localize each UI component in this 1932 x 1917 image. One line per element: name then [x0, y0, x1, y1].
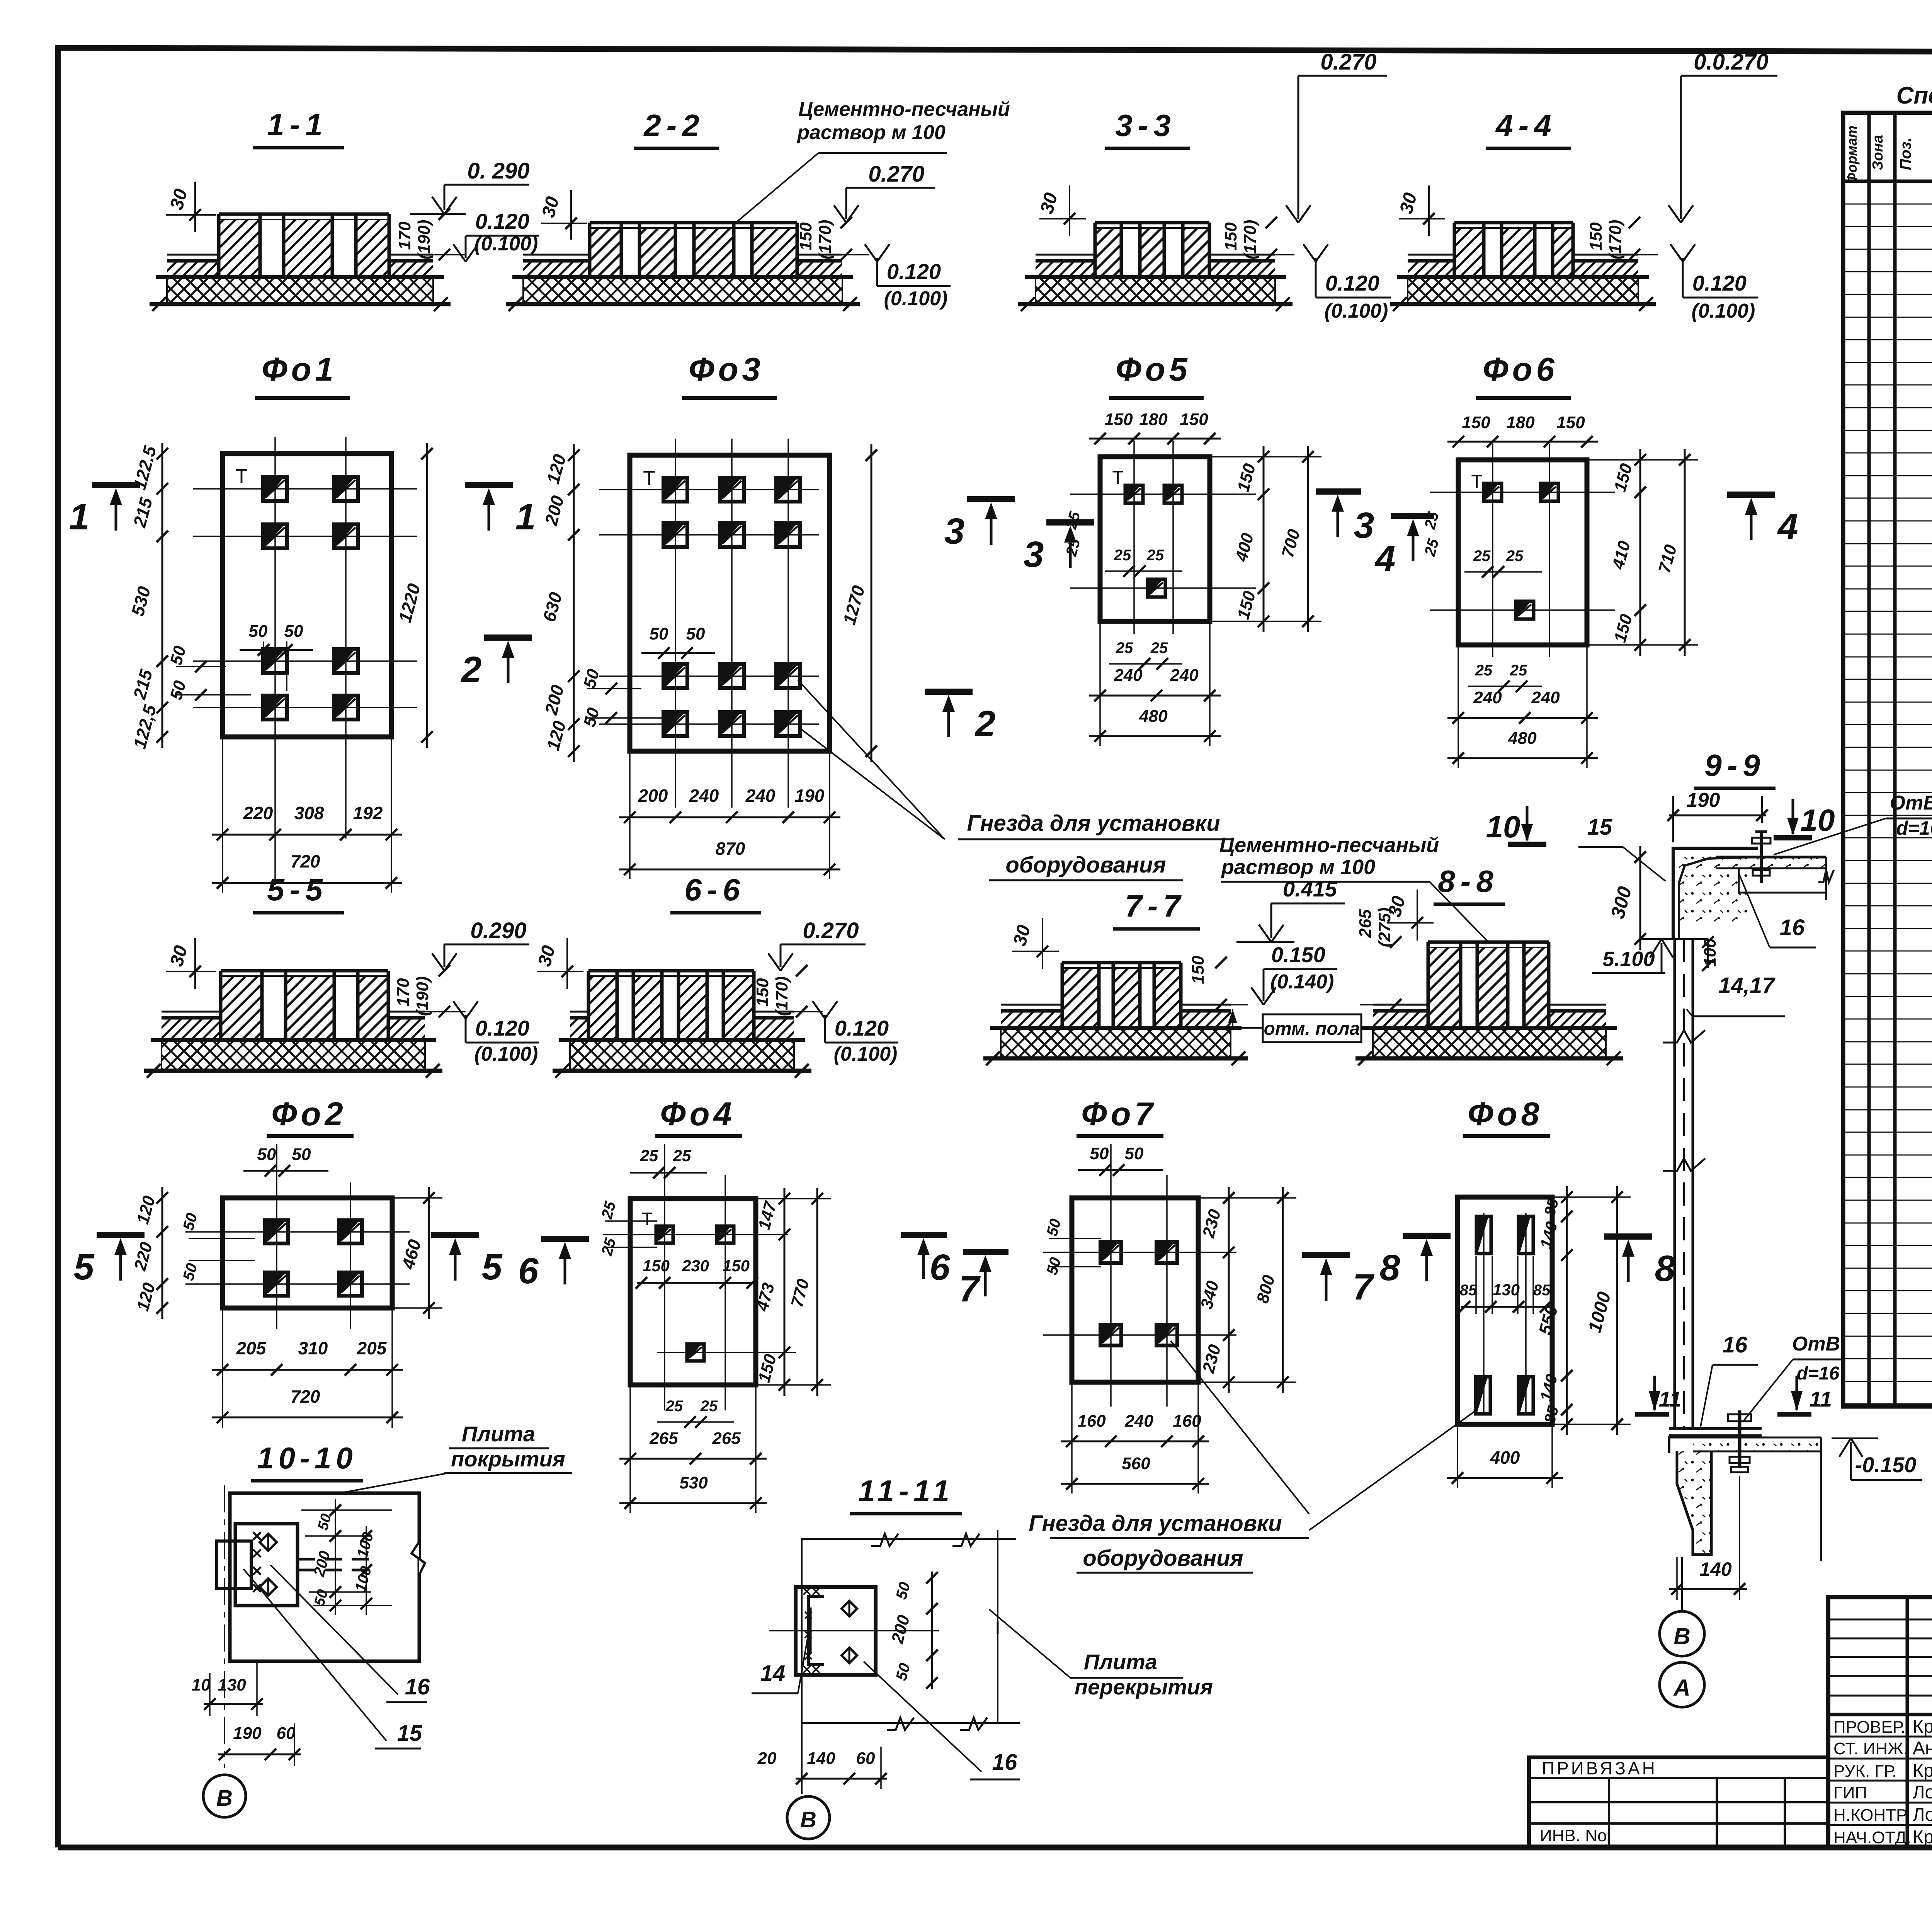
- svg-text:190: 190: [795, 786, 825, 806]
- svg-text:308: 308: [294, 803, 324, 823]
- svg-text:d=16: d=16: [1896, 817, 1932, 839]
- privyazan box: [1529, 1757, 1828, 1847]
- svg-text:8: 8: [1655, 1248, 1675, 1289]
- svg-text:140: 140: [807, 1749, 835, 1768]
- svg-text:205: 205: [357, 1338, 387, 1358]
- svg-text:16: 16: [405, 1674, 430, 1699]
- channel 11-11: [808, 1596, 824, 1665]
- axis circles B A 9-9: [1681, 1557, 1683, 1611]
- svg-text:50: 50: [284, 622, 303, 641]
- inner embed 10-10: [235, 1524, 298, 1606]
- svg-text:5: 5: [74, 1247, 95, 1288]
- weld x 11-11: [803, 1588, 810, 1595]
- svg-text:25: 25: [1475, 662, 1493, 679]
- bottom dims Fo5: [1089, 695, 1221, 697]
- dashed pair 10-10: [298, 1558, 379, 1561]
- leader gnezda Fo3: [798, 680, 945, 839]
- sockets Fo3: [663, 478, 687, 502]
- svg-text:0.120: 0.120: [475, 209, 529, 233]
- vertical ref line right 9-9: [1820, 1437, 1822, 1561]
- svg-text:4: 4: [1777, 506, 1798, 547]
- svg-text:720: 720: [291, 851, 320, 871]
- svg-text:192: 192: [353, 803, 383, 823]
- svg-text:Фо6: Фо6: [1483, 351, 1558, 388]
- svg-text:25: 25: [1506, 548, 1524, 565]
- svg-text:Цементно-песчаный: Цементно-песчаный: [1219, 833, 1439, 857]
- section mark 5 right: [431, 1232, 479, 1238]
- svg-text:10-10: 10-10: [257, 1441, 357, 1475]
- section mark 7 right: [1302, 1252, 1350, 1258]
- svg-text:покрытия: покрытия: [451, 1447, 565, 1471]
- axes 11-11: [801, 1538, 803, 1794]
- svg-text:d=16: d=16: [1797, 1363, 1840, 1384]
- svg-text:4: 4: [1374, 538, 1396, 579]
- svg-text:6: 6: [518, 1250, 539, 1291]
- svg-text:20: 20: [757, 1749, 777, 1768]
- svg-text:Гнезда для установки: Гнезда для установки: [967, 811, 1220, 836]
- leader gnezda Fo7 Fo8: [1171, 1341, 1309, 1514]
- label 16 11-11: [864, 1662, 981, 1772]
- section mark 7 left: [963, 1249, 1009, 1255]
- center lines Fo6: [1492, 444, 1493, 657]
- section mark 11 left: [1653, 1376, 1656, 1410]
- svg-text:50: 50: [1090, 1144, 1109, 1163]
- svg-text:0.290: 0.290: [470, 918, 526, 943]
- bottom slab 9-9: [1669, 1437, 1821, 1439]
- section mark 5 left: [97, 1232, 145, 1238]
- svg-text:10: 10: [1801, 803, 1835, 837]
- otm pola box 7-7: [1263, 1014, 1361, 1042]
- bottom dims Fo7: [1061, 1441, 1209, 1442]
- diamonds 11-11: [842, 1601, 857, 1616]
- svg-text:11: 11: [1659, 1387, 1681, 1411]
- svg-text:ИНВ. No: ИНВ. No: [1540, 1826, 1607, 1845]
- svg-text:150: 150: [796, 222, 815, 251]
- left dim chain Fo1: [162, 443, 163, 748]
- svg-text:Т: Т: [1471, 471, 1482, 492]
- svg-text:25: 25: [640, 1146, 658, 1165]
- svg-text:60: 60: [856, 1749, 875, 1768]
- svg-text:160: 160: [1173, 1412, 1201, 1431]
- section mark 11 right: [1796, 1376, 1798, 1410]
- svg-text:150: 150: [1104, 410, 1133, 429]
- svg-text:150: 150: [1587, 222, 1605, 251]
- svg-text:10: 10: [1486, 810, 1520, 844]
- svg-text:(0.100): (0.100): [1325, 300, 1388, 322]
- svg-text:А: А: [1673, 1675, 1690, 1701]
- sockets Fo4: [656, 1226, 673, 1243]
- svg-text:(0.100): (0.100): [834, 1043, 898, 1065]
- corbel 9-9: [1677, 1451, 1711, 1555]
- svg-text:480: 480: [1508, 729, 1537, 748]
- svg-text:15: 15: [1587, 815, 1612, 840]
- svg-text:130: 130: [1493, 1281, 1520, 1299]
- center lines Fo7: [1110, 1144, 1112, 1407]
- bracket 9-9 top: [1673, 848, 1758, 939]
- svg-text:РУК. ГР.: РУК. ГР.: [1833, 1762, 1897, 1781]
- section mark 6 right: [901, 1232, 947, 1238]
- svg-text:(170): (170): [1241, 220, 1260, 260]
- svg-text:5-5: 5-5: [267, 873, 328, 907]
- top dims 150 180 150 Fo5: [1089, 438, 1221, 440]
- svg-text:16: 16: [992, 1750, 1017, 1775]
- svg-text:Цементно-песчаный: Цементно-песчаный: [798, 98, 1010, 121]
- svg-text:-0.150: -0.150: [1855, 1453, 1917, 1477]
- svg-text:Краснова: Краснова: [1913, 1716, 1932, 1737]
- svg-text:25: 25: [700, 1398, 718, 1415]
- center lines Fo1: [274, 437, 276, 885]
- svg-text:8-8: 8-8: [1438, 864, 1499, 898]
- sockets Fo7: [1100, 1242, 1121, 1263]
- bottom dims Fo4: [619, 1458, 767, 1460]
- bolt bottom 9-9: [1738, 1410, 1742, 1468]
- leaders 16 15 10-10: [270, 1565, 398, 1694]
- svg-text:240: 240: [1473, 688, 1502, 707]
- svg-text:25: 25: [1146, 547, 1164, 564]
- svg-text:ПРИВЯЗАН: ПРИВЯЗАН: [1542, 1758, 1657, 1778]
- svg-text:1-1: 1-1: [267, 107, 328, 142]
- svg-text:Т: Т: [1112, 468, 1123, 488]
- svg-text:0.270: 0.270: [803, 918, 859, 943]
- right dim 1220 Fo1: [426, 443, 428, 748]
- svg-text:16: 16: [1780, 915, 1805, 940]
- bottom dim 400 Fo8: [1447, 1477, 1563, 1479]
- slab right 9-9: [1716, 856, 1826, 859]
- svg-text:В: В: [800, 1807, 816, 1832]
- svg-text:16: 16: [1723, 1332, 1748, 1357]
- center lines Fo4: [664, 1144, 665, 1410]
- svg-text:Плита: Плита: [1084, 1650, 1157, 1674]
- svg-text:6: 6: [930, 1247, 951, 1288]
- svg-text:8: 8: [1380, 1247, 1400, 1288]
- svg-text:0.270: 0.270: [868, 162, 924, 187]
- dims right 10-10: [301, 1509, 392, 1511]
- svg-text:7: 7: [959, 1269, 981, 1310]
- svg-text:14,17: 14,17: [1718, 973, 1776, 998]
- svg-text:(0.100): (0.100): [474, 1043, 538, 1065]
- svg-text:9-9: 9-9: [1704, 748, 1765, 782]
- svg-text:170: 170: [394, 978, 413, 1007]
- svg-text:0.120: 0.120: [1325, 271, 1379, 295]
- section mark 3 right Fo5: [1316, 488, 1361, 495]
- svg-text:В: В: [216, 1786, 233, 1811]
- svg-text:150: 150: [1221, 222, 1240, 251]
- svg-text:(170): (170): [772, 976, 791, 1016]
- svg-text:5.100: 5.100: [1602, 947, 1655, 971]
- svg-text:180: 180: [1139, 410, 1168, 429]
- svg-text:отм. пола: отм. пола: [1264, 1019, 1360, 1039]
- svg-text:(275): (275): [1375, 908, 1394, 947]
- svg-text:0.120: 0.120: [887, 259, 941, 284]
- svg-text:240: 240: [1124, 1412, 1153, 1431]
- channel left 10-10: [217, 1541, 251, 1589]
- wall below 9-9: [1673, 939, 1676, 1429]
- weld x marks 10-10: [253, 1532, 261, 1540]
- svg-text:560: 560: [1122, 1454, 1150, 1473]
- svg-text:85: 85: [1460, 1282, 1477, 1299]
- svg-text:0.120: 0.120: [835, 1016, 889, 1040]
- svg-text:0.150: 0.150: [1271, 942, 1325, 967]
- spec table grid: [1843, 113, 1932, 1407]
- svg-text:Красавин: Красавин: [1913, 1827, 1932, 1847]
- svg-text:220: 220: [243, 803, 273, 823]
- svg-text:оборудования: оборудования: [1005, 852, 1166, 878]
- center lines Fo3: [675, 439, 676, 808]
- svg-text:Н.КОНТР: Н.КОНТР: [1833, 1806, 1907, 1825]
- svg-text:Т: Т: [642, 1209, 653, 1229]
- svg-text:Фо1: Фо1: [262, 351, 337, 388]
- section mark 10 right: [1792, 799, 1794, 834]
- svg-text:ГИП: ГИП: [1833, 1783, 1867, 1802]
- sockets Fo5: [1125, 485, 1143, 503]
- section mark 1 left: [92, 482, 140, 488]
- svg-text:3-3: 3-3: [1115, 108, 1176, 143]
- section mark 3 left Fo5: [1046, 519, 1094, 526]
- svg-text:Краснова: Краснова: [1913, 1761, 1932, 1781]
- svg-text:НАЧ.ОТД.: НАЧ.ОТД.: [1833, 1828, 1911, 1847]
- section mark 1 right: [465, 482, 513, 488]
- axis circle B 10-10: [203, 1775, 246, 1817]
- section mark 3 top right: [967, 496, 1015, 502]
- svg-text:25: 25: [665, 1398, 683, 1415]
- svg-text:2-2: 2-2: [643, 108, 705, 143]
- svg-text:50: 50: [686, 624, 705, 643]
- left dim chain Fo3: [573, 444, 575, 762]
- svg-text:(190): (190): [415, 220, 434, 260]
- svg-text:150: 150: [723, 1257, 750, 1275]
- bottom dims Fo2: [212, 1369, 403, 1371]
- signature rows: [1828, 1736, 1932, 1738]
- right chain Fo5: [1263, 446, 1265, 632]
- svg-text:240: 240: [1170, 666, 1199, 685]
- svg-text:150: 150: [1189, 956, 1207, 984]
- svg-text:0. 290: 0. 290: [467, 158, 529, 184]
- svg-text:310: 310: [298, 1338, 328, 1358]
- svg-text:400: 400: [1490, 1448, 1520, 1468]
- right dim 1270 Fo3: [871, 444, 872, 762]
- svg-text:50: 50: [650, 624, 668, 643]
- svg-text:7-7: 7-7: [1125, 889, 1186, 923]
- svg-text:10: 10: [192, 1675, 211, 1694]
- svg-text:Т: Т: [235, 465, 248, 488]
- svg-text:7: 7: [1353, 1267, 1375, 1308]
- svg-text:(0.140): (0.140): [1270, 971, 1334, 993]
- svg-text:14: 14: [760, 1661, 786, 1686]
- svg-text:0.0.270: 0.0.270: [1694, 49, 1769, 75]
- top dims 150 180 150 Fo6: [1447, 441, 1598, 443]
- svg-text:Спецификация фундаментов под: Спецификация фундаментов под оборудовани…: [1896, 82, 1932, 109]
- svg-text:25: 25: [1473, 548, 1491, 565]
- sockets Fo2: [265, 1220, 288, 1243]
- svg-text:5: 5: [482, 1247, 503, 1288]
- svg-text:1: 1: [515, 497, 536, 538]
- section mark 10 left: [1526, 806, 1529, 840]
- svg-text:190: 190: [1687, 789, 1720, 811]
- svg-text:50: 50: [1125, 1144, 1144, 1163]
- svg-text:230: 230: [682, 1257, 709, 1275]
- dashdot axis 10-10: [224, 1485, 225, 1768]
- svg-text:1: 1: [69, 497, 90, 538]
- svg-text:50: 50: [292, 1145, 311, 1164]
- anchor bolt top 9-9: [1760, 832, 1763, 883]
- svg-text:3: 3: [1024, 534, 1044, 575]
- svg-text:205: 205: [236, 1338, 267, 1358]
- svg-text:265: 265: [712, 1429, 741, 1448]
- svg-text:870: 870: [716, 839, 745, 859]
- section mark 4 left Fo6: [1391, 513, 1434, 519]
- svg-text:Гнезда для установки: Гнезда для установки: [1029, 1511, 1282, 1536]
- svg-text:Формат: Формат: [1844, 126, 1860, 184]
- title block outer: [1828, 1597, 1932, 1847]
- svg-text:ПРОВЕР.: ПРОВЕР.: [1833, 1718, 1905, 1737]
- svg-text:15: 15: [397, 1721, 422, 1746]
- svg-text:11: 11: [1810, 1387, 1832, 1411]
- bottom dims Fo1: [212, 834, 402, 836]
- svg-text:25: 25: [673, 1146, 691, 1165]
- svg-text:150: 150: [1556, 413, 1585, 432]
- svg-text:85: 85: [1533, 1282, 1551, 1299]
- svg-text:Ананьева: Ананьева: [1913, 1738, 1932, 1759]
- svg-text:2: 2: [975, 703, 996, 744]
- dim 300 9-9: [1639, 846, 1641, 950]
- section mark 2 right: [925, 689, 973, 695]
- svg-text:Фо4: Фо4: [660, 1096, 736, 1133]
- sockets Fo1: [263, 477, 287, 501]
- svg-text:3: 3: [1354, 505, 1374, 546]
- svg-text:11-11: 11-11: [858, 1474, 954, 1508]
- svg-text:240: 240: [745, 786, 776, 806]
- right chain Fo7: [1228, 1187, 1230, 1393]
- svg-text:240: 240: [1531, 688, 1560, 707]
- svg-text:180: 180: [1506, 413, 1535, 432]
- bottom plate 9-9: [1669, 1427, 1762, 1430]
- svg-text:В: В: [1673, 1623, 1690, 1649]
- svg-text:140: 140: [1699, 1558, 1732, 1580]
- svg-text:150: 150: [1180, 410, 1208, 429]
- section mark 8 right: [1604, 1233, 1652, 1240]
- svg-text:(190): (190): [413, 976, 432, 1016]
- svg-text:Фо2: Фо2: [271, 1096, 347, 1133]
- svg-text:раствор м 100: раствор м 100: [1221, 856, 1375, 879]
- svg-text:25: 25: [1114, 547, 1131, 564]
- svg-text:Плита: Плита: [462, 1422, 535, 1446]
- svg-text:150: 150: [643, 1257, 670, 1275]
- svg-text:6-6: 6-6: [684, 873, 745, 907]
- right chains Fo8: [1566, 1186, 1568, 1435]
- right chain Fo4: [784, 1188, 786, 1396]
- svg-text:Т: Т: [643, 467, 655, 490]
- axis circle B 11-11: [787, 1796, 830, 1839]
- svg-text:СТ. ИНЖ.: СТ. ИНЖ.: [1833, 1739, 1908, 1758]
- svg-text:50: 50: [249, 622, 268, 641]
- dim 140 bottom 9-9: [1669, 1588, 1747, 1590]
- svg-text:240: 240: [689, 786, 719, 806]
- svg-text:(0.100): (0.100): [1692, 300, 1755, 322]
- svg-text:240: 240: [1114, 666, 1143, 685]
- svg-text:оборудования: оборудования: [1083, 1546, 1243, 1571]
- bottom dims Fo6: [1447, 717, 1598, 719]
- svg-text:Зона: Зона: [1870, 135, 1886, 170]
- sockets Fo6: [1484, 483, 1502, 501]
- center lines Fo5: [1133, 441, 1135, 634]
- svg-text:2: 2: [461, 649, 482, 690]
- plate 11-11: [796, 1587, 876, 1675]
- svg-text:0.270: 0.270: [1320, 49, 1376, 75]
- svg-text:25: 25: [1510, 662, 1527, 679]
- svg-text:190: 190: [233, 1724, 262, 1743]
- svg-text:ОтВ: ОтВ: [1792, 1333, 1840, 1355]
- svg-text:4-4: 4-4: [1495, 108, 1557, 143]
- svg-text:25: 25: [1116, 640, 1133, 657]
- section mark 6 left: [541, 1236, 589, 1242]
- svg-text:0.120: 0.120: [1692, 271, 1747, 295]
- svg-text:160: 160: [1077, 1412, 1106, 1431]
- svg-text:Лоуцкер: Лоуцкер: [1913, 1805, 1932, 1825]
- plate pokrytiya 10-10: [230, 1493, 419, 1661]
- svg-text:Фо8: Фо8: [1468, 1096, 1543, 1133]
- center lines Fo8: [1483, 1213, 1485, 1414]
- svg-text:Фо7: Фо7: [1081, 1096, 1157, 1133]
- svg-text:Фо5: Фо5: [1116, 351, 1191, 388]
- svg-text:(0.100): (0.100): [884, 287, 948, 310]
- svg-text:Фо3: Фо3: [689, 351, 764, 388]
- svg-text:480: 480: [1139, 707, 1168, 726]
- left chain Fo2: [162, 1187, 163, 1319]
- svg-text:раствор м 100: раствор м 100: [796, 121, 946, 144]
- svg-text:150: 150: [1462, 413, 1490, 432]
- right dim 460 Fo2: [428, 1187, 430, 1319]
- svg-text:720: 720: [291, 1386, 320, 1407]
- right chain Fo6: [1639, 449, 1641, 656]
- svg-text:0.120: 0.120: [475, 1016, 529, 1040]
- svg-text:60: 60: [277, 1724, 296, 1743]
- section mark 4 right Fo6: [1727, 492, 1775, 498]
- svg-text:25: 25: [1150, 640, 1168, 657]
- svg-text:130: 130: [218, 1675, 246, 1694]
- svg-text:170: 170: [395, 221, 414, 250]
- section mark 2 bottom: [484, 634, 532, 641]
- svg-text:(0.100): (0.100): [474, 233, 538, 255]
- svg-text:Поз.: Поз.: [1897, 138, 1914, 170]
- svg-text:3: 3: [944, 511, 965, 552]
- svg-text:530: 530: [679, 1473, 708, 1492]
- svg-text:265: 265: [1356, 909, 1375, 938]
- svg-text:Лоуцкер: Лоуцкер: [1913, 1782, 1932, 1803]
- svg-text:200: 200: [638, 786, 668, 806]
- svg-text:0.415: 0.415: [1283, 877, 1337, 901]
- svg-text:50: 50: [257, 1145, 276, 1164]
- slots Fo8: [1476, 1216, 1491, 1254]
- svg-text:(170): (170): [1606, 220, 1625, 260]
- svg-text:150: 150: [753, 978, 772, 1007]
- svg-text:265: 265: [649, 1429, 678, 1448]
- bottom dims Fo3: [619, 816, 840, 818]
- svg-text:(170): (170): [816, 220, 835, 260]
- title block upper-left grid: [1906, 1597, 1909, 1847]
- center lines Fo2: [276, 1144, 277, 1329]
- diamonds 10-10: [260, 1534, 277, 1551]
- section mark 8 left: [1403, 1233, 1451, 1239]
